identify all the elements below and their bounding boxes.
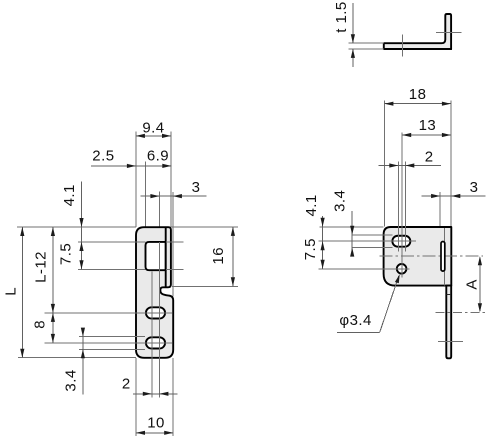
svg-text:4.1: 4.1	[303, 194, 320, 216]
svg-text:t 1.5: t 1.5	[333, 1, 350, 32]
svg-text:8: 8	[31, 320, 48, 329]
svg-text:13: 13	[419, 117, 437, 134]
svg-text:L-12: L-12	[32, 251, 49, 283]
svg-text:18: 18	[409, 86, 427, 103]
svg-text:3: 3	[192, 179, 201, 196]
svg-text:4.1: 4.1	[61, 184, 78, 206]
svg-text:L: L	[3, 287, 20, 296]
svg-text:16: 16	[210, 247, 227, 265]
svg-text:7.5: 7.5	[58, 243, 75, 265]
svg-text:2.5: 2.5	[92, 147, 114, 164]
svg-text:φ3.4: φ3.4	[339, 312, 371, 329]
svg-text:3: 3	[470, 179, 479, 196]
svg-text:3.4: 3.4	[63, 369, 80, 391]
svg-text:9.4: 9.4	[142, 119, 164, 136]
svg-text:A: A	[464, 279, 481, 289]
svg-text:10: 10	[147, 415, 165, 432]
svg-text:2: 2	[425, 148, 434, 165]
svg-text:2: 2	[122, 376, 131, 393]
svg-text:3.4: 3.4	[331, 190, 348, 212]
svg-text:7.5: 7.5	[302, 238, 319, 260]
svg-text:6.9: 6.9	[147, 147, 169, 164]
